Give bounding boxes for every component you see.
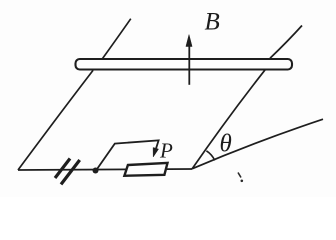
wire left rail lower segment bbox=[18, 70, 93, 170]
battery cell plate (long) bbox=[61, 160, 80, 184]
junction node bbox=[93, 168, 99, 174]
rheostat slider arrow bbox=[153, 148, 158, 158]
svg-text:B: B bbox=[205, 9, 220, 36]
ground line (horizontal surface) bbox=[192, 119, 323, 169]
stray mark bbox=[238, 173, 241, 178]
wire right rail upper segment bbox=[270, 26, 302, 59]
stray dot bbox=[241, 180, 244, 183]
wire left rail upper segment bbox=[102, 19, 131, 60]
wire rheostat branch bbox=[96, 140, 159, 170]
magnetic field arrow B bbox=[186, 35, 192, 85]
conducting rod ab bbox=[76, 59, 293, 70]
wire bottom edge of inclined plane bbox=[18, 169, 192, 170]
svg-text:P: P bbox=[159, 138, 173, 162]
rheostat R box bbox=[124, 163, 167, 176]
wire right rail lower segment bbox=[192, 69, 266, 169]
svg-text:θ: θ bbox=[220, 131, 232, 158]
angle arc bbox=[206, 151, 214, 161]
battery cell plate (short) bbox=[55, 159, 70, 179]
